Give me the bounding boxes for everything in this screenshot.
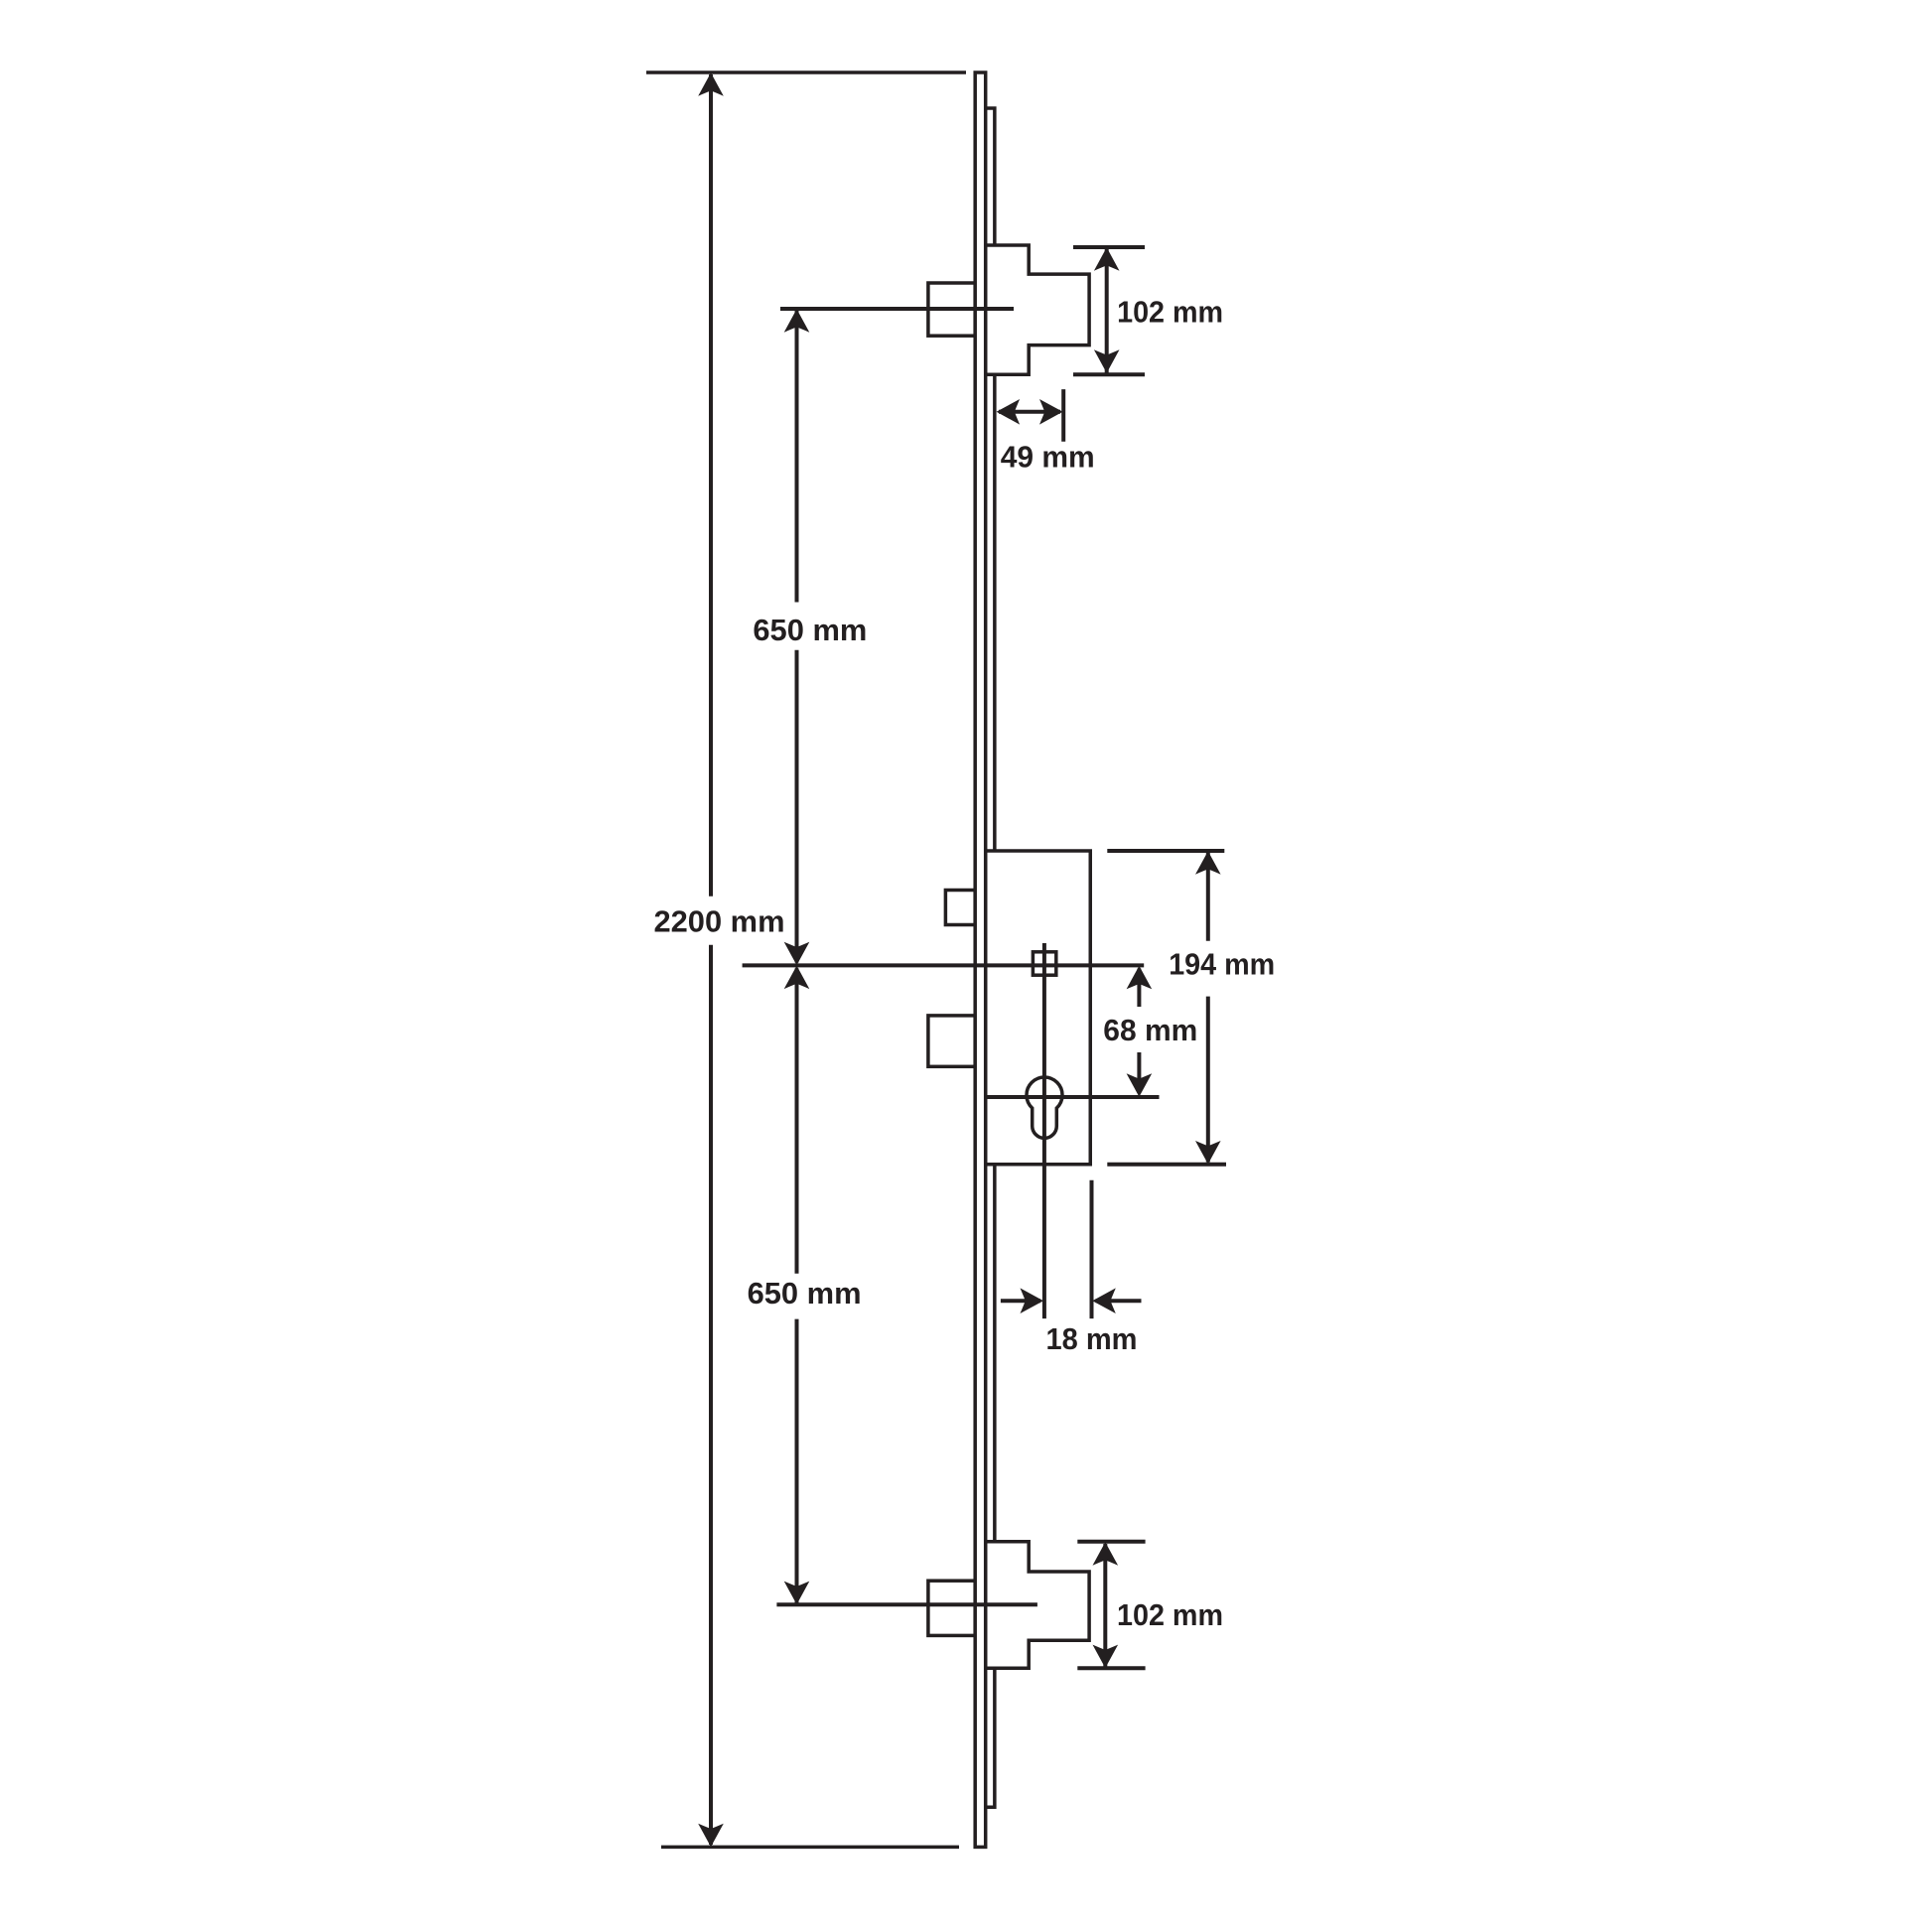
68 mm down arrowhead [1127, 1073, 1153, 1097]
650 mm bottom dimension lower segment [795, 1319, 799, 1603]
102 mm bottom dimension up arrowhead [1093, 1542, 1119, 1566]
49 mm dimension shaft [999, 410, 1060, 414]
102 mm bottom lower tick [1077, 1666, 1145, 1670]
194 mm down arrowhead [1195, 1141, 1221, 1165]
194 mm up arrowhead [1195, 851, 1221, 875]
650 mm bottom dimension upper segment [795, 968, 799, 1273]
svg-text:650 mm: 650 mm [748, 1276, 862, 1311]
650 mm top dimension top arrowhead [784, 309, 810, 333]
68 mm dimension upper segment [1137, 969, 1141, 1007]
top keep plate box [928, 283, 975, 336]
svg-text:102 mm: 102 mm [1117, 294, 1223, 329]
svg-text:102 mm: 102 mm [1117, 1597, 1223, 1632]
102 mm top dimension down arrowhead [1094, 349, 1120, 373]
euro cylinder profile [1027, 1077, 1062, 1138]
194 mm lower tick (case bottom) [1107, 1163, 1226, 1167]
68 mm up arrowhead [1127, 966, 1153, 990]
centre lock case [986, 851, 1091, 1165]
2200 mm dimension line lower segment [709, 945, 713, 1845]
650 mm bottom dimension top arrowhead [784, 966, 810, 990]
102 mm bottom dimension shaft [1103, 1544, 1107, 1667]
49 mm right tick [1061, 389, 1065, 442]
18 mm right tick (case edge extension) [1090, 1180, 1094, 1318]
top latch housing with bolt snout [986, 245, 1089, 374]
650 mm top dimension lower segment [795, 650, 799, 963]
18 mm left arrow shaft [1001, 1299, 1040, 1303]
svg-text:18 mm: 18 mm [1046, 1321, 1138, 1356]
650 mm top dimension bottom arrowhead [784, 942, 810, 966]
2200 mm top arrowhead [698, 72, 724, 96]
top latch centreline [780, 307, 1014, 311]
102 mm bottom dimension down arrowhead [1093, 1645, 1119, 1669]
spindle / cylinder vertical centreline [1042, 943, 1046, 1318]
svg-text:49 mm: 49 mm [1001, 439, 1095, 474]
68 mm dimension lower segment [1137, 1052, 1141, 1093]
102 mm bottom upper tick [1077, 1540, 1145, 1544]
centre lock centreline [743, 963, 1145, 967]
49 mm left arrowhead [997, 399, 1021, 425]
650 mm bottom dimension bottom arrowhead [784, 1582, 810, 1605]
194 mm upper tick [1107, 849, 1224, 853]
102 mm top dimension up arrowhead [1094, 247, 1120, 271]
cylinder centreline [986, 1095, 1160, 1099]
svg-text:650 mm: 650 mm [753, 613, 867, 647]
bottom latch centreline [776, 1602, 1037, 1606]
194 mm dimension upper segment [1206, 853, 1210, 941]
gear rail behind faceplate [986, 108, 995, 1807]
18 mm right arrow shaft [1096, 1299, 1142, 1303]
2200 mm bottom arrowhead [698, 1824, 724, 1848]
door bottom edge (2200 mm bottom extension line) [661, 1846, 959, 1850]
650 mm top dimension upper segment [795, 311, 799, 603]
2200 mm dimension line upper segment [709, 74, 713, 897]
49 mm right arrowhead [1039, 399, 1063, 425]
bottom keep plate box [928, 1581, 975, 1635]
bottom latch housing with bolt snout [986, 1542, 1089, 1669]
centre deadbolt (left of faceplate) [928, 1016, 975, 1066]
102 mm top upper tick [1073, 245, 1145, 249]
svg-text:194 mm: 194 mm [1169, 947, 1275, 982]
centre latch bolt (left of faceplate) [945, 891, 975, 925]
102 mm top lower tick [1073, 372, 1145, 376]
18 mm left-pointing arrowhead [1092, 1288, 1116, 1313]
door top edge (2200 mm top extension line) [646, 70, 966, 74]
spindle square follower [1033, 952, 1055, 975]
18 mm right-pointing arrowhead [1021, 1288, 1044, 1313]
svg-text:68 mm: 68 mm [1103, 1013, 1197, 1047]
194 mm dimension lower segment [1206, 997, 1210, 1163]
102 mm top dimension shaft [1105, 249, 1109, 373]
faceplate front bar [975, 72, 986, 1847]
svg-text:2200 mm: 2200 mm [654, 904, 785, 939]
